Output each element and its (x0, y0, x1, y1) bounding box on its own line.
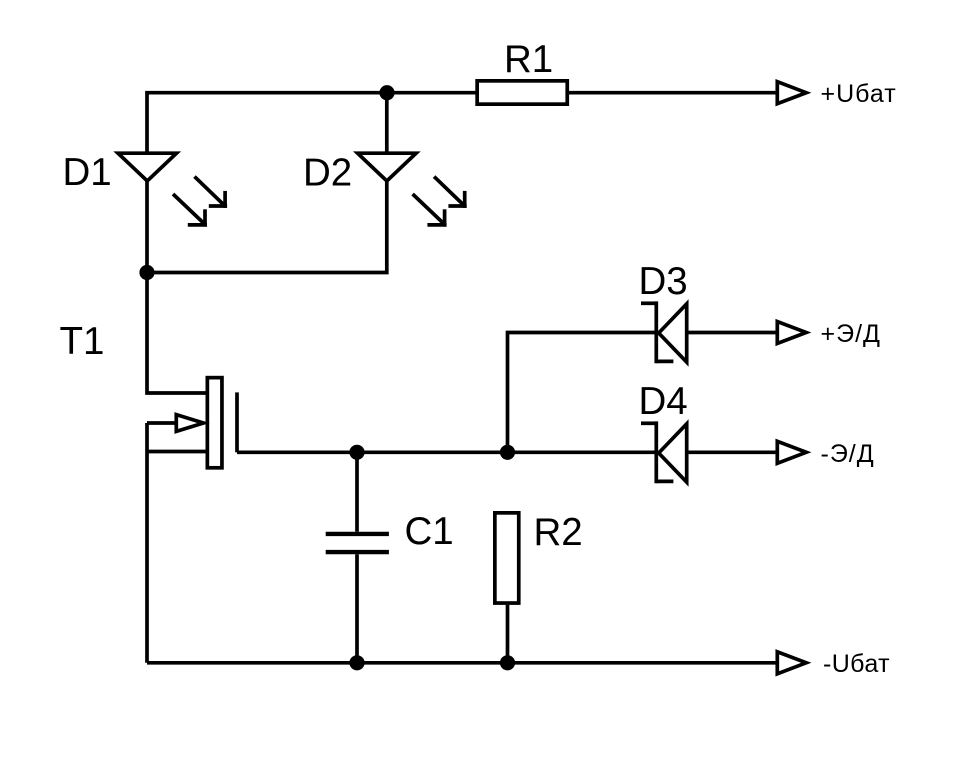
capacitor C1 bottom stub (355, 554, 359, 663)
terminal arrow -E/D (777, 441, 806, 463)
svg-text:+Uбат: +Uбат (821, 80, 897, 108)
wire bottom rail (147, 661, 777, 665)
wire top rail left segment (147, 93, 477, 154)
terminal arrow +Ubat (777, 82, 806, 104)
LED D2 (358, 153, 417, 181)
node dot R2 bottom (500, 655, 515, 670)
wire top rail right segment (R1 to +Ubat arrow) (568, 91, 777, 95)
wire T1 output to D4 (237, 450, 655, 454)
LED D2 light arrow 2 (413, 194, 447, 227)
node dot C1 bottom (349, 655, 364, 670)
svg-text:R1: R1 (504, 38, 553, 81)
terminal arrow +E/D (777, 322, 806, 344)
LED D1 light arrow 1 (195, 177, 228, 208)
transistor T1 substrate line (235, 392, 239, 452)
svg-text:D1: D1 (63, 151, 112, 194)
svg-text:D4: D4 (639, 380, 688, 423)
LED D1 (118, 153, 177, 181)
diode D3 zener (641, 301, 777, 363)
resistor R1 (477, 81, 567, 104)
transistor T1 channel bar (207, 378, 222, 468)
node A dot (D1/D2 join) (139, 265, 154, 280)
svg-text:D3: D3 (639, 260, 688, 303)
node dot R2 top (500, 445, 515, 460)
diode D4 zener (641, 421, 777, 483)
node junction dot top (D2/R1) (379, 85, 394, 100)
capacitor C1 top stub (355, 452, 359, 531)
svg-text:-Uбат: -Uбат (823, 650, 890, 678)
svg-text:R2: R2 (534, 511, 583, 554)
terminal arrow -Ubat (777, 652, 806, 674)
wire D2 bottom, to left joining node A (147, 181, 387, 273)
wire node A down to T1 drain, corner right (147, 273, 206, 394)
wire riser to D3 (508, 333, 655, 453)
wire T1 gate lead (147, 421, 176, 425)
node dot C1 top (349, 445, 364, 460)
svg-text:-Э/Д: -Э/Д (821, 440, 875, 468)
LED D2 light arrow 1 (434, 177, 467, 208)
wire R2 bottom stub (506, 605, 510, 663)
wire D2 top stub (385, 93, 389, 154)
wire T1 source lead (147, 450, 206, 454)
resistor R2 (495, 513, 519, 603)
LED D1 light arrow 2 (173, 194, 207, 227)
wire D1 bottom to node (145, 181, 149, 273)
capacitor C1 plates (326, 534, 389, 552)
svg-text:C1: C1 (405, 510, 454, 553)
svg-text:+Э/Д: +Э/Д (821, 320, 881, 348)
wire left vertical (gate/source to bottom rail) (145, 423, 149, 663)
transistor T1 gate arrow (176, 415, 203, 432)
svg-text:T1: T1 (60, 320, 105, 363)
svg-text:D2: D2 (303, 152, 352, 195)
